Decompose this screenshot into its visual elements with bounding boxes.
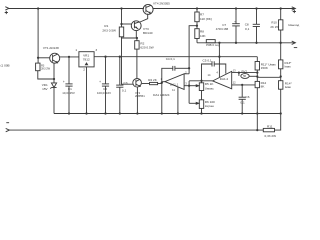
wire DA1.2 output left: [189, 80, 213, 82]
transistor VT2: [133, 79, 145, 99]
svg-text:+: +: [99, 80, 101, 84]
zener diode VD1: [42, 79, 57, 114]
node dot R2 top: [136, 37, 138, 39]
wire VT3 collector to VT4: [140, 14, 148, 22]
svg-text:15V: 15V: [42, 87, 48, 91]
resistor R14: [279, 81, 293, 114]
capacitor C5: [202, 59, 226, 81]
svg-text:3: 3: [95, 48, 97, 52]
wire VR1 pin2 down: [86, 67, 88, 114]
svg-text:4700×16B: 4700×16B: [216, 27, 229, 31]
potentiometer R5: [189, 81, 214, 91]
capacitor C6: [239, 85, 250, 114]
wire ref rail corner down: [256, 57, 258, 62]
wire minus sense rail y42: [197, 41, 295, 44]
wire VT1 collector to VR1: [60, 56, 79, 58]
wire divider tap to C4 corner: [189, 26, 197, 69]
node dot emitter join: [53, 78, 55, 80]
wire bottom minus rail: [6, 128, 264, 131]
wire R3 to zener: [38, 71, 54, 79]
wire top rail right: [153, 7, 296, 10]
capacitor C4: [162, 57, 189, 82]
node dot DA1.1 output: [161, 82, 163, 84]
svg-text:5B: 5B: [243, 76, 246, 78]
resistor R11s 150K: [255, 62, 276, 71]
resistor R10: [270, 9, 283, 43]
wire R5 R6 link: [201, 91, 203, 100]
svg-text:C8: C8: [245, 22, 249, 26]
svg-text:11K [8K]: 11K [8K]: [200, 17, 212, 21]
svg-text:C7: C7: [222, 23, 226, 27]
node minus input label: [6, 122, 9, 124]
varistor PV2: [239, 70, 257, 79]
node dot pin13 join: [256, 71, 258, 73]
svg-text:Р0В 0 пор: Р0В 0 пор: [206, 43, 220, 47]
svg-text:R10: R10: [271, 21, 277, 25]
svg-text:R11: R11: [267, 125, 273, 129]
svg-text:Uмакс: Uмакс: [205, 87, 214, 91]
node dots on minus rail: [218, 42, 282, 44]
svg-text:BD140: BD140: [143, 31, 153, 35]
node dot C2 tap: [104, 56, 106, 58]
node dot R7 R8: [196, 25, 198, 27]
wire wiper column: [188, 81, 190, 103]
svg-text:(1 00B: (1 00B: [1, 63, 10, 67]
svg-text:DA1.2: DA1.2: [220, 77, 229, 81]
capacitor C2: [97, 57, 111, 114]
voltage regulator VR1 7812: [75, 48, 97, 72]
svg-text:150K: 150K: [261, 66, 269, 70]
svg-text:+: +: [63, 80, 65, 84]
svg-text:10,0×25V: 10,0×25V: [62, 91, 75, 95]
op-amp DA1.2: [208, 68, 237, 88]
svg-text:Iмак: Iмак: [285, 85, 292, 89]
svg-text:7812: 7812: [83, 57, 90, 61]
resistor R1: [102, 9, 123, 37]
wire out minus divider column: [280, 43, 282, 60]
node dot C1 tap: [68, 56, 70, 58]
svg-text:Iмак: Iмак: [285, 65, 292, 69]
capacitor C1: [62, 57, 75, 114]
resistor R3: [36, 63, 51, 71]
svg-text:2: 2: [83, 68, 85, 72]
wire top rail left: [5, 7, 144, 10]
resistor R2: [135, 41, 154, 50]
node dot oval tap: [238, 71, 240, 73]
wire VT2 collector left: [122, 38, 134, 84]
resistor R7: [195, 9, 212, 22]
wire VT1 base: [38, 57, 50, 59]
wire output node down: [161, 82, 163, 114]
svg-text:2K 2W: 2K 2W: [270, 25, 279, 29]
wire R11s to node: [256, 70, 258, 81]
capacitor C8: [245, 9, 260, 43]
svg-text:PV2: PV2: [242, 70, 248, 74]
node Uout label: [288, 23, 299, 27]
wire DA1.2 pin13 right: [232, 72, 258, 74]
node dot output C5 R5: [200, 80, 202, 82]
node dot bottom: [256, 129, 258, 131]
svg-text:C6: C6: [246, 95, 250, 99]
resistor R13: [279, 60, 293, 69]
node dot VT3 base tap: [120, 23, 122, 25]
svg-text:2N5551: 2N5551: [135, 94, 145, 98]
wire sense tap vertical and DA1.2 supply: [218, 43, 220, 77]
resistor R11 shunt: [263, 114, 280, 138]
transistor VT3: [131, 21, 152, 35]
capacitor C7: [216, 9, 240, 43]
svg-text:0,1: 0,1: [245, 27, 250, 31]
op-amp DA1.1: [153, 70, 187, 97]
svg-text:0,1: 0,1: [240, 100, 245, 104]
node dot link join: [256, 75, 258, 77]
svg-text:0,33 2W: 0,33 2W: [265, 134, 277, 138]
svg-text:+: +: [234, 19, 236, 23]
svg-text:100,0×16V: 100,0×16V: [97, 91, 111, 95]
node minus output label: [294, 47, 297, 49]
node dot C6 tap: [241, 84, 243, 86]
svg-text:C4 0,1: C4 0,1: [166, 57, 175, 61]
node dots common rail: [68, 112, 282, 114]
wire VT3 base: [122, 23, 132, 25]
wire R2 to VT2: [136, 38, 138, 79]
capacitor C3: [116, 57, 128, 114]
wire left vertical x38: [37, 9, 39, 64]
wire DA1.1 output: [162, 81, 165, 83]
resistor R8: [195, 22, 207, 43]
wire sense link: [257, 76, 281, 78]
wire VT3 emitter down: [135, 31, 137, 38]
wire VT1 emitter down: [53, 63, 55, 79]
svg-text:Iогран: Iогран: [205, 104, 214, 108]
svg-text:R4 2K: R4 2K: [148, 78, 158, 82]
transistor VT4: [143, 1, 170, 14]
node dot wiper tie: [188, 85, 190, 87]
node dot C4 corner: [188, 67, 190, 69]
resistor R9: [206, 40, 220, 47]
resistor R4: [142, 78, 162, 85]
svg-text:2K3 0.5W: 2K3 0.5W: [102, 28, 116, 32]
wire DA1.2 pin12 right: [232, 84, 255, 86]
svg-text:C5 0,1: C5 0,1: [203, 59, 212, 63]
svg-text:Uвыход: Uвыход: [288, 23, 299, 27]
svg-text:VT1 AD138: VT1 AD138: [43, 46, 59, 50]
node dot sense tap: [218, 56, 220, 58]
svg-text:DA1 LM324: DA1 LM324: [153, 93, 170, 97]
wire R13 to node: [280, 69, 282, 81]
svg-text:R5 1K: R5 1K: [205, 82, 215, 86]
svg-text:VT4 2N3055: VT4 2N3055: [153, 1, 170, 5]
node plus output label: [293, 10, 296, 13]
resistor R12: [255, 81, 266, 114]
svg-text:620 0.5W: 620 0.5W: [140, 46, 153, 50]
wire DA1.1 in+ stub: [184, 85, 189, 87]
node dot VT1 base: [37, 57, 39, 59]
wire DA1.1 in- stub: [184, 68, 189, 74]
transistor VT1: [43, 46, 60, 63]
wire VT2 emitter down: [136, 87, 138, 113]
svg-text:2K3 2W: 2K3 2W: [41, 67, 51, 70]
node dot C3 tap: [119, 56, 121, 58]
node input voltage label: [1, 63, 10, 67]
svg-text:10K: 10K: [200, 34, 206, 38]
node dot sense mid: [280, 75, 282, 77]
node pin4 label: [216, 71, 218, 75]
junction dots top rail: [37, 7, 282, 9]
wire sense vertical: [256, 114, 258, 131]
node plus input label: [5, 11, 8, 14]
wire reference rail y56: [94, 56, 257, 58]
svg-text:DA1.1: DA1.1: [170, 83, 179, 87]
wire R1 bottom jog: [122, 37, 137, 38]
svg-text:0,1: 0,1: [122, 88, 127, 92]
wire DA1.1 pin11 down: [177, 87, 179, 114]
svg-text:1: 1: [75, 48, 77, 52]
potentiometer R6: [189, 100, 215, 114]
wire common rail y113: [54, 113, 281, 115]
